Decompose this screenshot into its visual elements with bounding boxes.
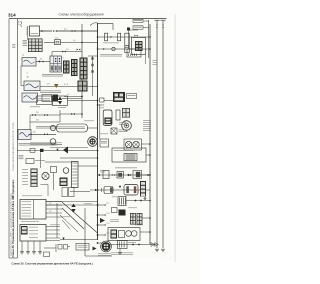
svg-text:1,25: 1,25 bbox=[55, 38, 58, 40]
svg-text:Схема 30. Система управления д: Схема 30. Система управления двигателем … bbox=[12, 262, 93, 266]
svg-text:2,0: 2,0 bbox=[73, 40, 75, 42]
svg-text:Схемы электрооборудования: Схемы электрооборудования bbox=[58, 13, 103, 17]
svg-text:30: 30 bbox=[27, 77, 29, 79]
svg-text:2: 2 bbox=[63, 58, 64, 60]
svg-text:С/Л: С/Л bbox=[47, 84, 50, 86]
svg-text:Схемы управления двигателем 4A: Схемы управления двигателем 4A-FE, 7A-FE bbox=[12, 122, 15, 171]
svg-text:1: 1 bbox=[27, 73, 28, 75]
svg-text:0,5: 0,5 bbox=[40, 59, 42, 61]
svg-text:3,0: 3,0 bbox=[64, 29, 67, 31]
svg-text:314: 314 bbox=[8, 13, 16, 18]
svg-text:0,5 Л: 0,5 Л bbox=[64, 84, 68, 86]
svg-text:модели выпуска с 1996 г. с авт: модели выпуска с 1996 г. с автоматическо… bbox=[10, 193, 13, 256]
svg-text:2,0: 2,0 bbox=[66, 49, 68, 51]
